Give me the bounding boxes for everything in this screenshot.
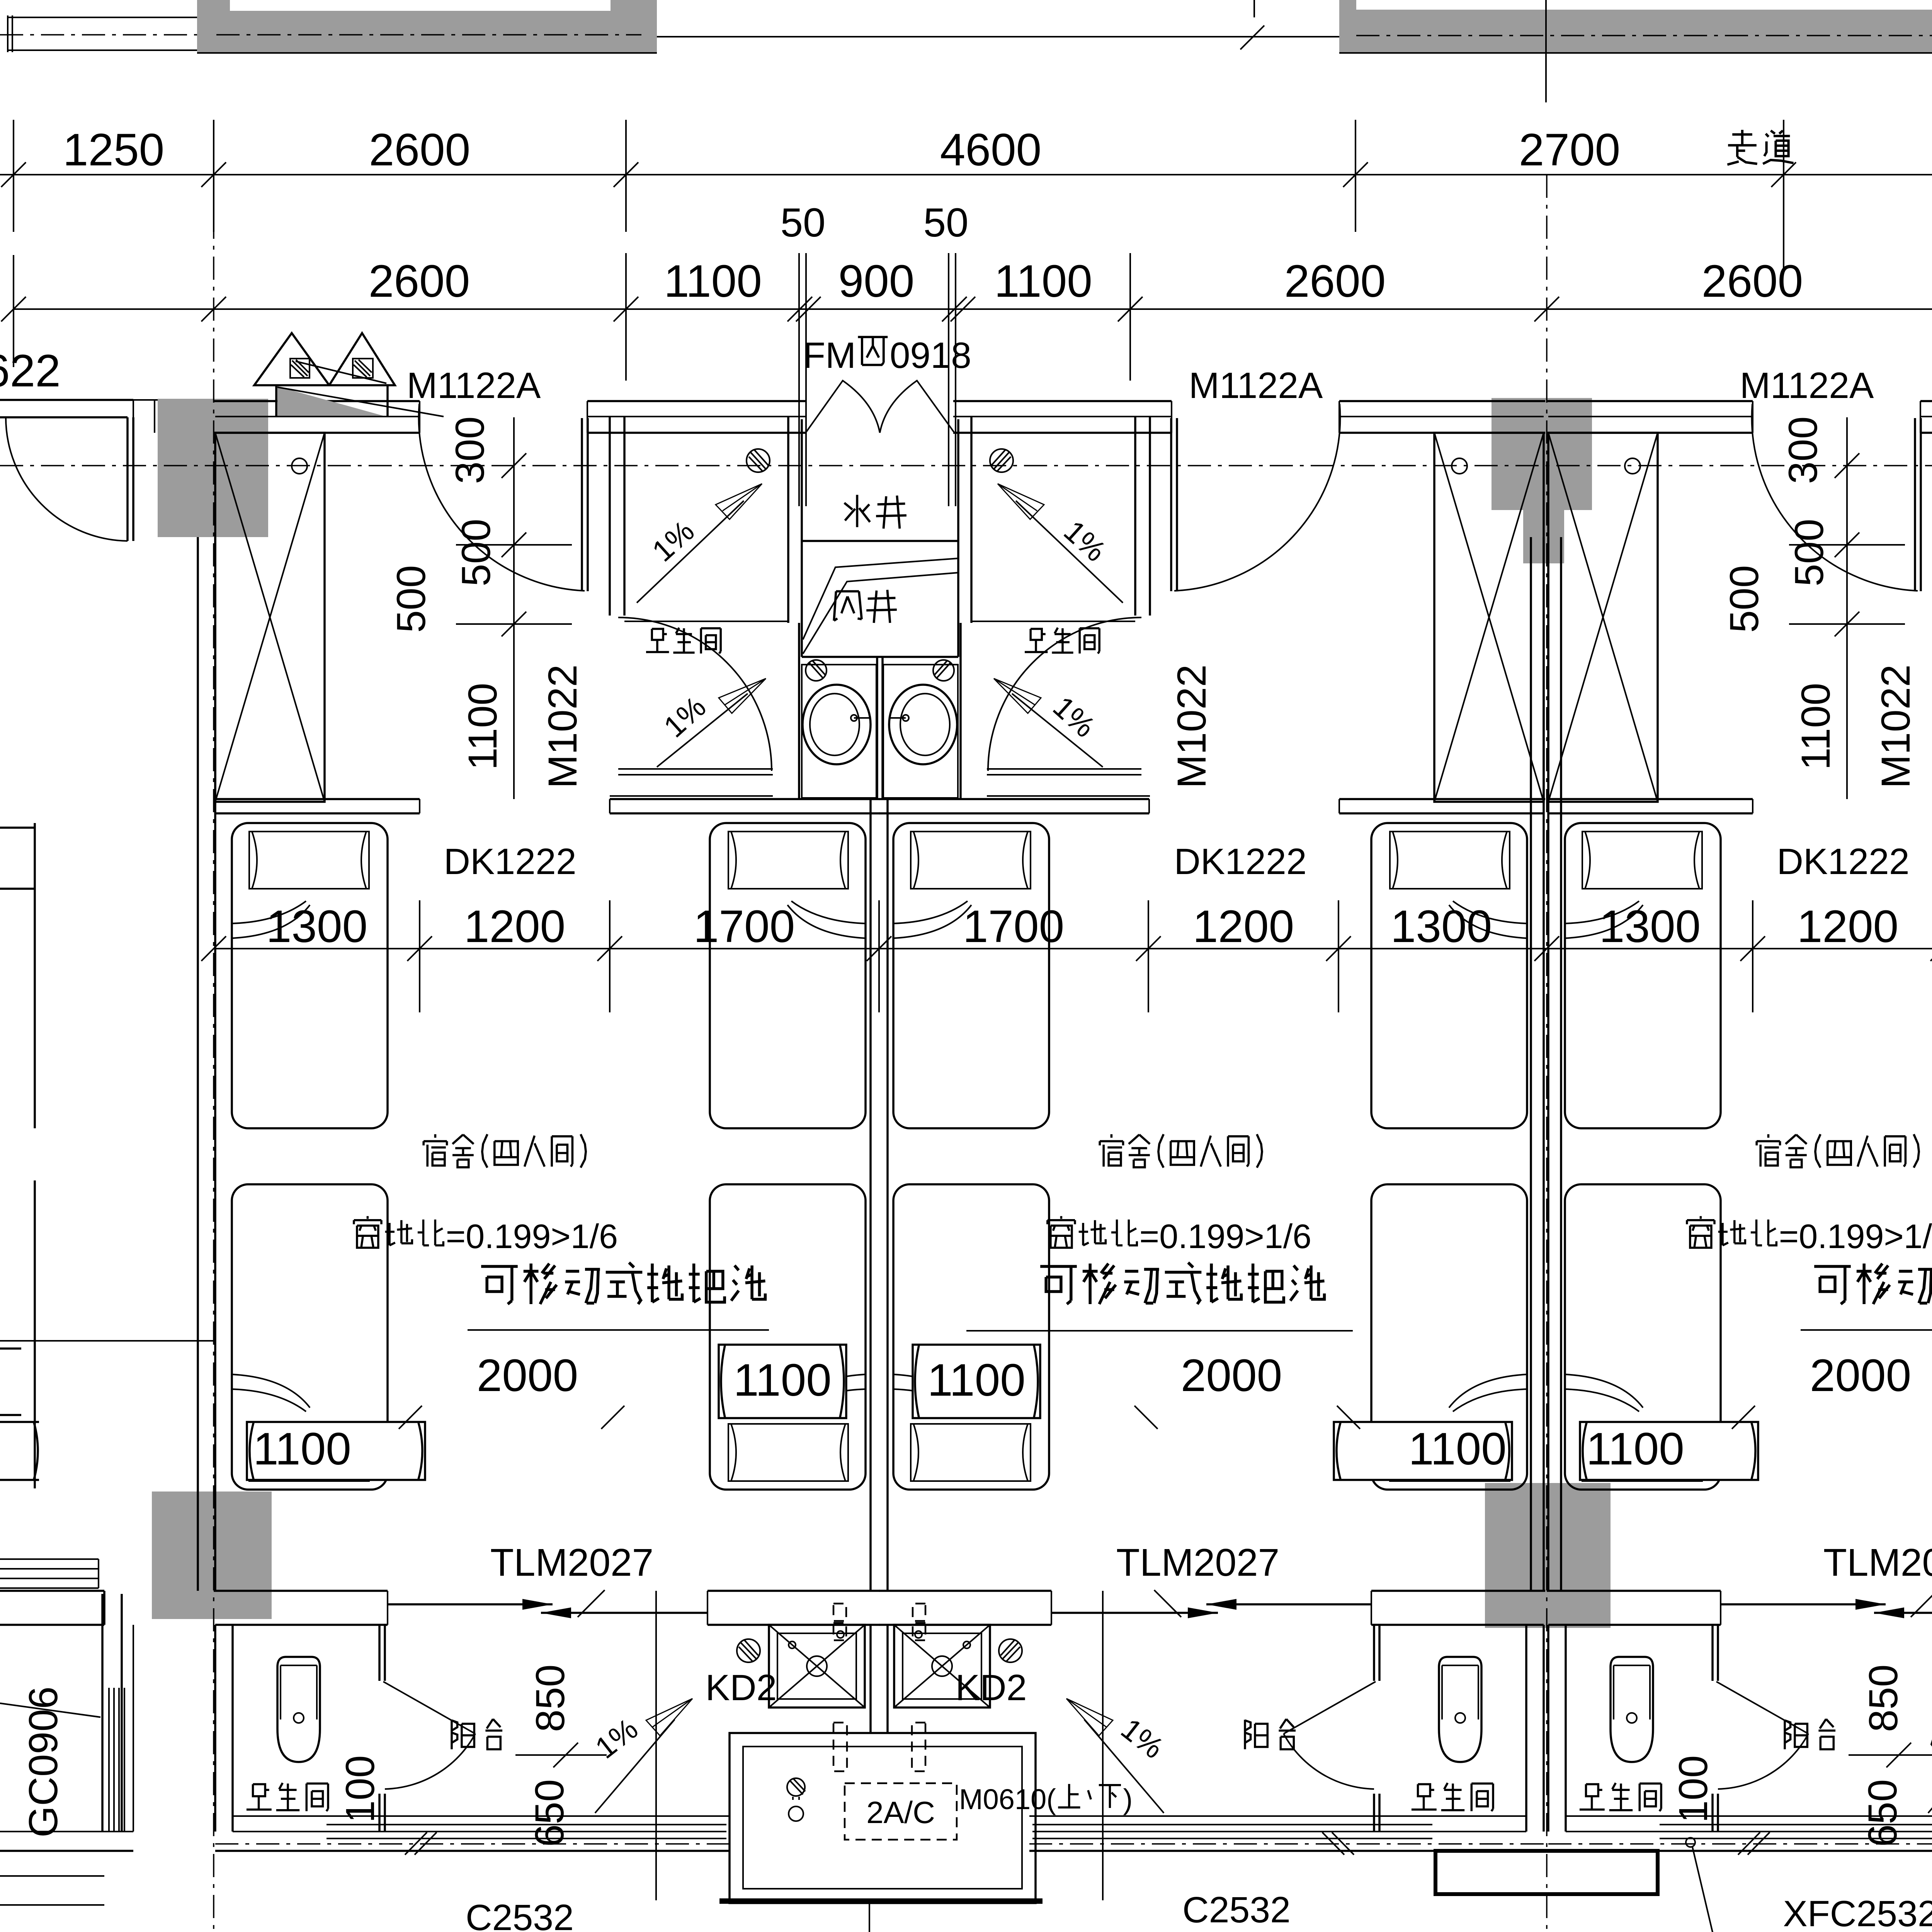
svg-text:50: 50	[781, 200, 826, 245]
column top at grid B	[1492, 398, 1592, 563]
interior line	[133, 1625, 134, 1832]
top wall	[0, 400, 133, 417]
column top at grid A	[158, 399, 268, 537]
svg-text:2700: 2700	[1519, 124, 1621, 175]
unit 2	[1531, 253, 1932, 1932]
corridor centre line	[0, 465, 1932, 466]
svg-text:50: 50	[923, 200, 969, 245]
row2 line left stub	[14, 308, 214, 310]
corridor label	[1727, 130, 1793, 165]
svg-text:C2532: C2532	[1182, 1889, 1291, 1930]
bottom window band	[0, 1559, 99, 1588]
column bottom at grid B	[1485, 1483, 1611, 1628]
window sill box partial	[0, 1422, 39, 1480]
window GC0906	[109, 1688, 124, 1831]
svg-text:622: 622	[0, 345, 61, 396]
door closer symbol room A	[254, 333, 444, 417]
fire rescue window leader	[1686, 1838, 1695, 1847]
svg-text:2600: 2600	[369, 124, 471, 175]
upper gray wall block left	[197, 0, 657, 53]
protruding slab	[1435, 1851, 1658, 1894]
upper gray wall middle	[1339, 0, 1356, 53]
corridor wall line	[657, 36, 1339, 37]
unit 1	[198, 253, 1561, 1932]
door leaf and swing	[128, 417, 133, 541]
bottom wall	[0, 1591, 104, 1625]
svg-text:4600: 4600	[940, 124, 1042, 175]
west partial beds	[0, 823, 35, 1488]
west facade wall	[102, 1594, 122, 1832]
svg-text:XFC2532: XFC2532	[1783, 1893, 1932, 1932]
svg-text:C2532: C2532	[466, 1897, 574, 1932]
mop pool line	[0, 1340, 214, 1342]
outer wall	[0, 1831, 133, 1832]
svg-text:1250: 1250	[63, 124, 165, 175]
upper left room walls	[8, 15, 197, 52]
column bottom at grid A	[152, 1492, 272, 1619]
